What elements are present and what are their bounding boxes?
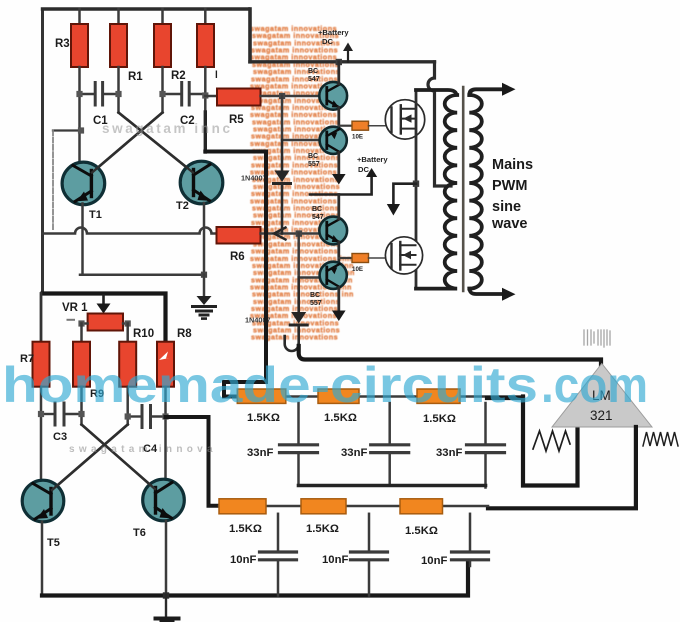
wire: R8 bottom to T6 collector (164, 387, 167, 477)
node: C1 left (76, 91, 82, 97)
wire: long feed to LM321 top (299, 346, 601, 370)
icon: PWM pulses (584, 330, 610, 347)
resistor R4 top stub (204, 9, 207, 24)
MOSFET Q2 (385, 237, 422, 274)
svg-text:T6: T6 (133, 527, 146, 539)
wire: C4 node tap to RC ladder 2 (166, 417, 220, 506)
svg-text:homemade-circuits: homemade-circuits (2, 357, 538, 413)
node: bracket junction (78, 127, 84, 133)
diode D2 1N4007 (297, 278, 300, 312)
resistor R7 (33, 342, 50, 387)
resistor 1.5K row1 b (318, 389, 359, 403)
wire: cross coupling R10 node to T5 base (52, 425, 128, 491)
svg-text:l: l (215, 70, 218, 81)
transformer secondary winding (469, 95, 482, 289)
svg-text:.com: .com (541, 357, 648, 413)
capacitor C2 (180, 83, 183, 106)
wire: cross coupling R2 node to T1 base (92, 113, 163, 173)
resistor 1.5K row1 a (237, 389, 285, 403)
transistor T1 (62, 162, 105, 205)
node: lower base tee (296, 230, 302, 236)
resistor R3 top stub (78, 9, 81, 24)
wire: T1 collector bracket to left (53, 129, 80, 131)
wire: R10 top stub (126, 324, 129, 343)
svg-text:swagatam innc: swagatam innc (102, 121, 233, 136)
capacitor C4 leads (128, 415, 140, 417)
svg-text:1N4007: 1N4007 (241, 174, 267, 183)
wire: cross coupling R1 node to T2 base (119, 113, 194, 173)
MOSFET Q1 (385, 100, 424, 139)
wire: RC row2 bus (219, 505, 488, 508)
resistor R9 (73, 342, 90, 387)
svg-text:1.5KΩ: 1.5KΩ (405, 525, 438, 537)
potentiometer VR1 wiper arrow (102, 296, 105, 304)
wire: LM321 output right leg down to row2 wire (488, 427, 636, 508)
svg-text:33nF: 33nF (341, 447, 367, 459)
svg-text:10nF: 10nF (421, 555, 447, 567)
svg-text:T2: T2 (176, 200, 189, 212)
wire: BC547 collector to rail (337, 62, 340, 84)
transformer core (462, 87, 465, 291)
wire: cross coupling overlays into T5 T6 (52, 425, 128, 491)
wire: top rail corner down to battery rail (248, 9, 252, 62)
transistor BC547 (lower driver) (319, 217, 347, 245)
resistor 1.5K row1 c (417, 389, 460, 403)
svg-text:10E: 10E (352, 266, 363, 273)
arrow: source to battery negative (393, 184, 416, 204)
svg-text:PWM: PWM (492, 178, 527, 194)
svg-text:BC: BC (310, 292, 320, 299)
wire: R4 bottom to T2 collector tap (204, 67, 207, 112)
svg-text:557: 557 (308, 161, 320, 168)
wire: lower BC547 collector up to +batt wire (337, 195, 340, 220)
wire: left frame vertical (41, 9, 44, 294)
wire: R6 feed with hops (43, 228, 217, 234)
svg-text:wave: wave (491, 216, 527, 232)
resistor 10E upper (352, 121, 369, 130)
wire: R3 bottom to T1 collector (78, 67, 81, 163)
capacitor C2 leads (163, 93, 180, 96)
resistor R1 (110, 24, 127, 67)
resistor R5 lead (205, 95, 217, 98)
wire: VR1 right lead (123, 322, 128, 324)
capacitor C1 leads (80, 93, 94, 96)
ground: upper oscillator earth (203, 275, 206, 296)
capacitor C1 (94, 83, 97, 106)
svg-text:T1: T1 (89, 209, 102, 221)
resistor R2 top stub (161, 9, 164, 24)
node: source junction (413, 181, 419, 187)
power: +Battery DC arrow 1 (347, 50, 349, 62)
wire: R5 to BC547 base (261, 95, 321, 98)
wire: 10E to MOSFET2 gate (369, 257, 392, 259)
capacitor C3 leads (41, 413, 53, 415)
resistor 10E (upper gate) lead (339, 125, 352, 127)
wire: bottom ground bus (42, 562, 468, 596)
icon: sine/zigzag at output (643, 432, 678, 446)
svg-text:33nF: 33nF (247, 447, 273, 459)
capacitor 10nF b (368, 514, 371, 551)
svg-text:547: 547 (308, 76, 320, 83)
resistor R4 (197, 24, 214, 67)
svg-text:Mains: Mains (492, 157, 533, 173)
diode arrow at R6 node (274, 228, 286, 240)
svg-text:R3: R3 (55, 38, 70, 50)
wire: R7 bottom to T5 collector (40, 387, 43, 481)
svg-text:+Battery: +Battery (318, 28, 349, 37)
svg-text:DC: DC (358, 165, 369, 174)
node: T6 emitter on bus (163, 592, 169, 598)
svg-text:R8: R8 (177, 328, 192, 340)
wire: VR1 left lead (82, 322, 88, 324)
capacitor 33nF a (297, 403, 300, 444)
svg-text:R2: R2 (171, 70, 186, 82)
transistor BC557 (upper driver) (320, 127, 347, 154)
wire: diode U-turn stub (285, 336, 299, 351)
svg-text:BC: BC (308, 68, 318, 75)
svg-text:10nF: 10nF (322, 554, 348, 566)
wire: ground wire T1-T2 emitters (80, 273, 204, 276)
node: C2 right / R5 tee (202, 92, 208, 98)
potentiometer VR1 body (88, 314, 123, 331)
wire: secondary bottom output arrow (469, 289, 503, 294)
wire: T6 emitter to bus (165, 521, 168, 596)
svg-text:557: 557 (310, 300, 322, 307)
svg-text:DC: DC (322, 37, 333, 46)
wire: R6 to lower BC pair bases (261, 232, 321, 235)
wire: T5 emitter to bus (41, 522, 44, 596)
resistor R6 (217, 227, 261, 244)
resistor R5 (217, 89, 261, 106)
capacitor 33nF b (388, 403, 391, 444)
capacitor 10nF c (469, 514, 472, 551)
wire: rail down to transformer center tap (with hop) (428, 62, 451, 186)
node: C1 right (115, 91, 121, 97)
svg-text:1.5KΩ: 1.5KΩ (229, 523, 262, 535)
wire: lower BC557 collector down with arrow (337, 288, 340, 311)
resistor 1.5K row2 c (400, 499, 443, 514)
op-amp LM321 (552, 364, 652, 428)
node: diode branch tee on R5 wire (279, 93, 285, 99)
resistor R8 (157, 342, 174, 387)
transistor BC557 (lower driver) (320, 262, 347, 289)
transistor T6 (143, 479, 185, 521)
svg-text:R6: R6 (230, 251, 245, 263)
wire: 10E to MOSFET gate (369, 125, 392, 127)
resistor 10E lower (352, 254, 369, 263)
wire: base tee down to BC557 base (282, 96, 320, 140)
watermark hatch (orange repeated text) (250, 24, 355, 342)
transformer primary winding (416, 90, 457, 289)
svg-text:BC: BC (308, 153, 318, 160)
svg-text:10E: 10E (352, 134, 363, 141)
wire: T2 emitter down (203, 203, 206, 275)
svg-text:1.5KΩ: 1.5KΩ (306, 523, 339, 535)
svg-text:1.5KΩ: 1.5KΩ (324, 412, 357, 424)
svg-text:BC: BC (312, 206, 322, 213)
svg-text:+Battery: +Battery (357, 155, 388, 164)
svg-text:VR 1: VR 1 (62, 302, 88, 314)
transistor BC547 (upper driver) (319, 82, 347, 110)
ground: bottom earth (165, 596, 167, 617)
wire: top rail horizontal (43, 7, 249, 10)
wire: R9 top stub (80, 324, 83, 343)
svg-text:1.5KΩ: 1.5KΩ (247, 412, 280, 424)
resistor 1.5K row2 b (301, 499, 346, 514)
svg-text:R10: R10 (133, 328, 154, 340)
svg-text:1.5KΩ: 1.5KΩ (423, 413, 456, 425)
svg-text:swagatam innova: swagatam innova (69, 444, 217, 455)
transistor T2 (180, 161, 223, 204)
svg-text:10nF: 10nF (230, 554, 256, 566)
wire: T1 emitter down (81, 204, 84, 275)
svg-text:R1: R1 (128, 71, 143, 83)
wire: R2 bottom stub (161, 67, 164, 113)
wire: lower base tee down to BC557 base (299, 234, 321, 278)
svg-text:547: 547 (312, 214, 324, 221)
transistor T5 (22, 480, 64, 522)
node: rail junction at BC547 collector (336, 59, 342, 65)
wire: R9 bottom stub (80, 387, 83, 425)
node: emitter ground tee (201, 272, 207, 278)
wire: 33nF bottom bus (299, 484, 486, 488)
diode D1 1N4007 (281, 140, 284, 170)
wire: battery positive rail (250, 60, 435, 63)
capacitor C3 (54, 403, 57, 425)
wire: emitter junction between driver pair (337, 108, 340, 128)
wire: BC557 collector down with arrow to negative (337, 153, 340, 175)
icon: triangle wave at inverting input (533, 431, 570, 451)
wire: cross coupling R9 node to T6 base (82, 425, 156, 490)
wire: MOSFET drain-source vertical (415, 90, 418, 287)
wire: lower block top rail (43, 294, 166, 342)
capacitor 10nF a (277, 514, 280, 551)
wire: secondary top output arrow (469, 89, 503, 95)
resistor 1.5K row2 a (219, 499, 266, 514)
capacitor 33nF c (484, 403, 487, 444)
svg-text:C3: C3 (53, 431, 67, 443)
svg-text:T5: T5 (47, 537, 60, 549)
resistor R2 (154, 24, 171, 67)
wire: R10 bottom stub (126, 387, 129, 425)
resistor 10E (lower gate) lead (339, 257, 352, 259)
wire: emitter junction lower driver pair (337, 242, 340, 262)
wire: R7 top stub (40, 294, 43, 343)
resistor R3 (71, 24, 88, 67)
wire: cross coupling overlays into transistors (92, 113, 163, 173)
svg-text:33nF: 33nF (436, 447, 462, 459)
wire: T2 collector tap to RC ladder 1 (205, 152, 266, 397)
wire: RC row1 bus (238, 395, 523, 398)
wire: R1 bottom stub (117, 67, 120, 113)
node: C2 left (159, 91, 165, 97)
resistor R1 top stub (117, 9, 120, 24)
svg-text:sine: sine (492, 199, 521, 215)
resistor R10 (119, 342, 136, 387)
power: +Battery DC arrow 2 (310, 176, 372, 195)
capacitor C4 (141, 406, 144, 428)
wire: row1 to LM321 inverting input (U shape) (523, 397, 578, 486)
